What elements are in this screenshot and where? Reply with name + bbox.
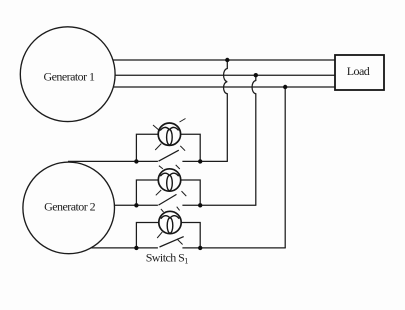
lamp P1 rays (153, 119, 186, 151)
wire lamp branch 1 (L1 up, across lamp P1, down to R1) (136, 134, 200, 161)
lamp P2 rays (156, 165, 187, 196)
junction dot on phase B (254, 73, 258, 77)
wire vertical drop 1 from phase A with hops over B and C (224, 60, 228, 161)
node L1 dot (134, 159, 138, 163)
lamp P3 bulb (159, 211, 181, 233)
lamp P2 bulb (158, 169, 180, 191)
wire bus phase C (Generator 1 bottom wire to Load) (100, 86, 335, 88)
node R3 dot (198, 246, 202, 250)
wire bus phase B (Generator 1 middle wire to Load) (100, 74, 335, 76)
generator G1 body (20, 27, 115, 122)
switch S1b right stub (182, 204, 200, 206)
wire row1 right segment (node R1 to drop 1) (200, 160, 228, 162)
svg-text:Generator 2: Generator 2 (44, 200, 95, 214)
junction dot on phase A (225, 58, 229, 62)
junction dot on phase C (283, 85, 287, 89)
wire Generator 2 bottom lead to node L3 (85, 247, 136, 249)
node L2 dot (134, 203, 138, 207)
svg-text:Load: Load (347, 64, 370, 78)
svg-text:Generator 1: Generator 1 (44, 70, 95, 84)
switch S1c right stub (182, 247, 200, 249)
wire vertical drop 3 from phase C (284, 87, 286, 248)
wire row3 right segment (node R3 to drop 3) (200, 247, 286, 249)
wire vertical drop 2 from phase B with hop over C (252, 75, 256, 205)
switch S1b left stub (136, 204, 158, 206)
node R1 dot (198, 159, 202, 163)
generator G2 body (23, 162, 115, 254)
lamp P1 bulb (158, 123, 180, 145)
switch S1b blade (159, 194, 177, 205)
load box (335, 55, 384, 90)
wire Generator 2 middle lead to node L2 (100, 204, 136, 206)
node R2 dot (198, 203, 202, 207)
switch S1a blade (159, 150, 179, 161)
switch S1c blade (160, 237, 184, 247)
wire bus phase A (Generator 1 top wire to Load) (100, 59, 335, 61)
lamp P3 rays (157, 207, 182, 245)
wire lamp branch 2 (L2 up, across lamp P2, down to R2) (136, 180, 200, 205)
node L3 dot (134, 246, 138, 250)
svg-text:Switch S1: Switch S1 (146, 250, 189, 265)
switch S1a left stub (136, 160, 158, 162)
wire Generator 2 top lead to node L1 (68, 160, 136, 162)
switch S1a right stub (182, 160, 200, 162)
switch S1c left stub (136, 247, 158, 249)
wire lamp branch 3 (L3 up, across lamp P3, down to R3) (136, 223, 200, 248)
wire row2 right segment (node R2 to drop 2) (200, 204, 256, 206)
